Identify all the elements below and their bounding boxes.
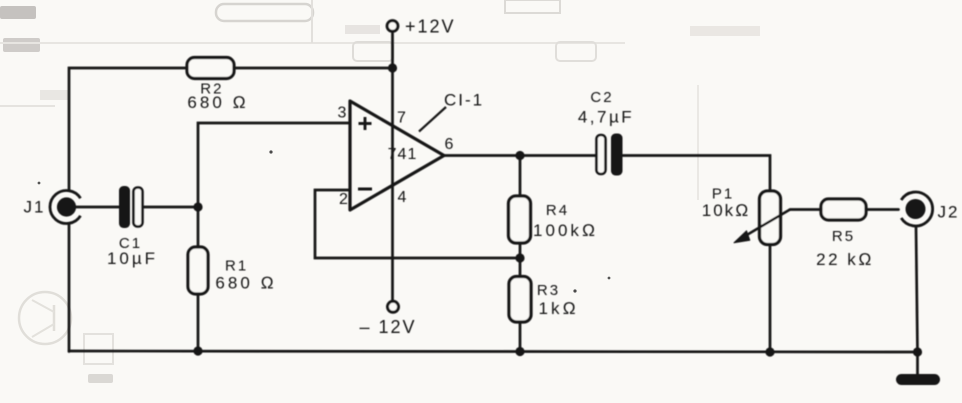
node: R2 / +12V junction: [388, 63, 397, 72]
svg-text:1kΩ: 1kΩ: [538, 299, 578, 318]
svg-text:680 Ω: 680 Ω: [187, 93, 248, 112]
potentiometer P1: [702, 186, 790, 245]
wire: R4 to R3: [519, 243, 522, 277]
wire: +12V supply line through op-amp (pin 7 / pin 4): [391, 34, 394, 300]
connector J2: [901, 192, 959, 226]
node: output / R4 junction: [515, 151, 524, 160]
svg-text:6: 6: [445, 136, 454, 153]
wire: op-amp output to C2: [444, 154, 596, 157]
svg-text:4,7µF: 4,7µF: [578, 108, 634, 127]
wire: R3 bottom to ground rail: [519, 322, 522, 352]
svg-text:10µF: 10µF: [107, 249, 158, 268]
wire: R5 to J2: [866, 208, 899, 211]
resistor R5: [816, 199, 874, 269]
svg-text:P1: P1: [712, 186, 734, 203]
ground: [896, 374, 940, 385]
resistor R3: [509, 277, 579, 323]
wire: input node down to R1: [197, 207, 200, 247]
svg-text:C2: C2: [590, 89, 613, 106]
node: R4 / R3 / feedback junction: [515, 253, 524, 262]
wire: ground rail: [69, 351, 918, 352]
svg-text:4: 4: [398, 189, 407, 206]
svg-text:680 Ω: 680 Ω: [215, 274, 276, 293]
wire: output node down to R4: [519, 156, 522, 197]
wire: ground stub: [916, 352, 919, 374]
svg-text:R1: R1: [225, 258, 248, 275]
wire: J2 down to ground rail: [916, 227, 918, 353]
svg-text:J1: J1: [24, 198, 46, 217]
wire: C1 to input node: [144, 206, 199, 209]
+12V terminal: [387, 16, 455, 36]
svg-text:R3: R3: [537, 282, 560, 299]
svg-text:3: 3: [338, 105, 347, 122]
wire: J1 ring down to ground rail: [68, 224, 71, 352]
wire: P1 bottom to ground rail: [769, 245, 772, 353]
svg-text:741: 741: [388, 146, 418, 163]
wire: pin 2 feedback to R4/R3 junction: [315, 190, 520, 258]
node: P1 ground junction: [765, 347, 774, 356]
svg-text:R5: R5: [832, 228, 855, 245]
node: R3 ground junction: [515, 347, 524, 356]
svg-text:J2: J2: [938, 203, 960, 222]
node: R1 ground junction: [193, 346, 202, 355]
svg-text:– 12V: – 12V: [359, 317, 416, 337]
wire: J1 ring up and over to R2: [69, 68, 187, 191]
connector J1: [24, 191, 81, 224]
wire: R2 right to +12V line: [234, 67, 393, 70]
svg-text:7: 7: [397, 110, 406, 127]
svg-text:CI-1: CI-1: [444, 91, 484, 110]
capacitor C2: [578, 89, 634, 176]
resistor R1: [188, 247, 277, 294]
svg-text:R4: R4: [546, 202, 569, 219]
svg-text:22 kΩ: 22 kΩ: [816, 250, 874, 269]
resistor R2: [187, 58, 249, 113]
node: C1 / R1 / pin3 junction: [193, 202, 202, 211]
svg-text:10kΩ: 10kΩ: [702, 201, 750, 220]
node: J2 / ground junction: [913, 347, 922, 356]
wire: J1 pin to C1: [75, 206, 119, 209]
op-amp CI-1 (741): [338, 91, 485, 211]
svg-text:100kΩ: 100kΩ: [533, 221, 598, 240]
wire: R1 bottom to ground rail: [197, 294, 200, 351]
ghost bleed-through (decorative): [0, 0, 760, 383]
wire: C2 right over and down to P1: [623, 156, 770, 192]
wire: P1 wiper to R5: [790, 208, 821, 211]
-12V terminal: [359, 301, 416, 337]
capacitor C1: [107, 186, 158, 268]
wire: input node to pin 3: [198, 123, 350, 207]
svg-text:+12V: +12V: [405, 16, 456, 36]
resistor R4: [509, 196, 598, 243]
svg-text:2: 2: [339, 191, 348, 208]
